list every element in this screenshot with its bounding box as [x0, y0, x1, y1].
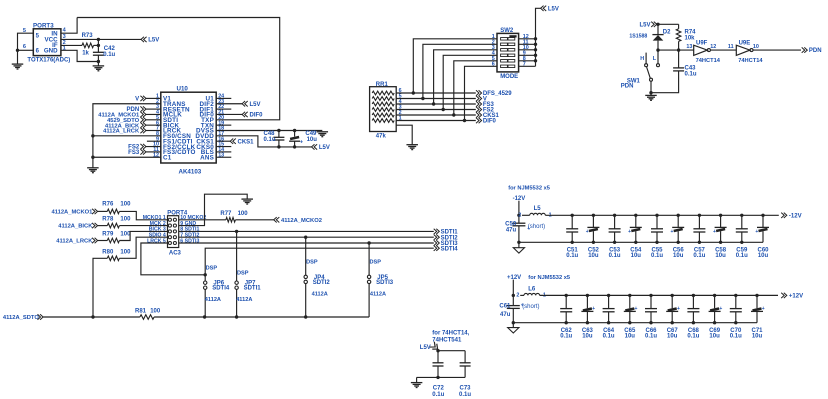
svg-text:10u: 10u — [758, 253, 769, 259]
wire U10 pin3 — [146, 108, 161, 110]
resistor R80 100 — [102, 249, 131, 260]
wire SW2 pin4 to net row — [443, 55, 497, 109]
svg-text:L5V: L5V — [548, 6, 559, 12]
svg-text:R74: R74 — [685, 30, 697, 36]
wire +12V gnd stem — [512, 323, 514, 328]
svg-text:10u: 10u — [588, 253, 599, 259]
svg-text:H: H — [640, 56, 644, 62]
node 4112A_MCKO1 at U10 pin4 — [98, 112, 146, 119]
wire U10 pin19 stub — [216, 124, 231, 126]
junction net row 3 — [432, 102, 435, 105]
svg-text:(short): (short) — [522, 304, 539, 310]
svg-text:4112A_SDTO: 4112A_SDTO — [3, 315, 39, 321]
svg-text:10u: 10u — [673, 253, 684, 259]
svg-text:U10: U10 — [177, 86, 189, 93]
wire R73 to node — [94, 44, 99, 46]
junction JP7 top — [235, 230, 238, 233]
node CKS1 at U10 — [230, 139, 254, 146]
svg-text:R77: R77 — [220, 211, 232, 217]
wire U10 pin14 stub — [216, 151, 231, 153]
RR1 pin numbers — [399, 88, 402, 122]
wire PORT4 pin5 to JP6 node — [141, 243, 205, 275]
svg-text:DSP: DSP — [370, 260, 382, 266]
wire U9F to U9E — [710, 49, 736, 51]
node DFS_4529 — [476, 90, 512, 97]
junction C48 top — [277, 129, 280, 132]
svg-text:DIF0: DIF0 — [250, 113, 264, 119]
capacitor C70 0.1u — [730, 294, 742, 340]
capacitor C48 — [264, 131, 285, 147]
node L5V at PORT3 — [141, 37, 159, 44]
svg-text:C72: C72 — [433, 386, 445, 392]
inductor L5 (short) — [518, 206, 551, 230]
PORT4 pin circles — [168, 218, 176, 244]
node 4112A_MCKO2 — [274, 217, 322, 224]
capacitor C64 0.1u — [603, 294, 615, 340]
wire +12V bottom rail — [513, 322, 757, 324]
svg-text:CKS1: CKS1 — [238, 139, 255, 145]
capacitor C67 10u — [666, 294, 680, 340]
wire PORT3 pin6 to ground rail — [18, 49, 34, 51]
diode D2 1S1588 — [629, 24, 671, 50]
junction JP5 top — [367, 241, 370, 244]
op-amp U10 box AK4103 — [161, 86, 216, 176]
wire L5V rail to R74 — [657, 23, 679, 25]
svg-text:PORT3: PORT3 — [33, 23, 54, 30]
svg-text:+: + — [671, 229, 674, 235]
node 4112A_BICK at U10 pin6 — [105, 122, 146, 129]
junction -12V bottom start — [517, 241, 520, 244]
svg-text:R76: R76 — [102, 202, 114, 208]
node DIF0 — [476, 118, 497, 125]
wire PORT3 pin5 to ground rail — [18, 33, 34, 50]
svg-text:GND: GND — [44, 48, 58, 55]
svg-text:L5V: L5V — [148, 38, 159, 44]
wire SW2 pin6 to net row — [465, 66, 498, 120]
PORT3 pin number 4 — [63, 28, 67, 34]
wire U10 pin6 — [146, 124, 161, 126]
label for 74HCT14 74HCT541 — [432, 331, 469, 344]
svg-text:0.1u: 0.1u — [687, 334, 699, 340]
wire U10 TRANS/FS0/C1 to ground — [93, 104, 161, 168]
svg-text:10: 10 — [753, 44, 759, 50]
wire SW2 pin5 to net row — [454, 61, 497, 115]
node FS3 at U10 pin11 — [128, 149, 146, 156]
wire SDTO line — [154, 316, 369, 318]
svg-text:MODE: MODE — [500, 74, 518, 80]
svg-text:0.1u: 0.1u — [685, 72, 697, 78]
svg-text:C49: C49 — [305, 131, 317, 137]
node 4112A_SDTO — [3, 314, 43, 321]
svg-text:AK4103: AK4103 — [179, 168, 202, 175]
svg-text:4112A_MCKO2: 4112A_MCKO2 — [281, 218, 322, 224]
wire -12V gnd stem — [518, 242, 520, 247]
wire net row DIF0 — [396, 120, 476, 122]
RR1 resistors — [372, 91, 394, 122]
node +12V out — [781, 293, 803, 300]
wire SW2 right pins to L5V bus — [519, 8, 541, 66]
svg-text:0.1u: 0.1u — [560, 334, 572, 340]
wire C72 to C73 top — [438, 350, 465, 352]
wire net row V — [396, 98, 476, 100]
svg-text:4112A: 4112A — [205, 297, 221, 303]
PORT3 pin number 6 — [23, 44, 26, 50]
junction -12V rail start — [517, 214, 520, 217]
node L5V at SW2 — [541, 6, 559, 13]
junction node PDN-in left — [656, 48, 659, 51]
wire U9E to PDN — [753, 49, 801, 51]
svg-text:100: 100 — [120, 216, 131, 222]
wire U10 pin9 stub — [147, 140, 161, 142]
svg-text:47u: 47u — [500, 312, 511, 318]
svg-text:2: 2 — [516, 293, 519, 299]
svg-text:74HCT14: 74HCT14 — [696, 58, 721, 64]
svg-text:ANS: ANS — [200, 154, 214, 161]
junction SDTO/JP7 — [235, 315, 238, 318]
svg-text:L5V: L5V — [250, 102, 261, 108]
svg-text:+: + — [755, 229, 758, 235]
wire U10 pin1 — [146, 97, 161, 99]
capacitor C57 0.1u — [693, 214, 705, 260]
inverter U9E 74HCT14 — [736, 40, 763, 64]
wire U10 pin10 — [146, 146, 161, 148]
switch SW2 (DIP) MODE — [497, 28, 519, 80]
capacitor C59 0.1u — [736, 214, 748, 260]
PORT3 pin number 2 — [63, 40, 66, 46]
svg-text:DFS_4529: DFS_4529 — [483, 91, 512, 97]
junction JP4 top — [304, 236, 307, 239]
svg-text:+: + — [586, 229, 589, 235]
svg-text:4112A_BICK: 4112A_BICK — [58, 224, 93, 230]
jumper JP6 SDTI4 — [204, 266, 230, 318]
junction net row 1 — [412, 91, 415, 94]
junction R73/C42 — [97, 44, 100, 47]
U9E pin 11 — [728, 44, 734, 50]
junction C72 top — [436, 349, 439, 352]
junction SDTO/JP4 — [304, 315, 307, 318]
svg-text:10u: 10u — [715, 253, 726, 259]
U9F pin 12 — [710, 44, 716, 50]
wire BICK to R78 — [98, 225, 108, 227]
inverter U9F 74HCT14 — [694, 40, 721, 64]
wire SW2 pin3 to net row — [434, 50, 497, 104]
svg-text:100: 100 — [150, 309, 161, 315]
wire -12V rail — [545, 214, 779, 216]
svg-text:DSP: DSP — [237, 271, 249, 277]
PORT4 pin labels — [143, 215, 207, 244]
U10 pin names — [163, 96, 214, 162]
svg-text:SDTI4: SDTI4 — [212, 286, 230, 292]
svg-text:+12V: +12V — [789, 294, 803, 300]
svg-text:-12V: -12V — [789, 214, 802, 220]
svg-text:R79: R79 — [102, 232, 114, 238]
svg-text:DIF0: DIF0 — [483, 119, 497, 125]
svg-text:1S1588: 1S1588 — [629, 33, 647, 39]
svg-text:74HCT14: 74HCT14 — [738, 58, 763, 64]
svg-text:+: + — [762, 306, 765, 312]
resistor R74 10k — [676, 24, 696, 50]
ground U10 left — [87, 168, 99, 173]
wire net row CKS1 — [396, 114, 476, 116]
wire gnd stem C72 — [416, 377, 418, 382]
U9E pin 10 — [753, 44, 759, 50]
U10 pin numbers — [153, 94, 224, 159]
wire node to U9F — [658, 49, 694, 51]
wire R80 left to SDTO line — [93, 258, 107, 317]
wire SW2 pin1 to net row — [413, 39, 497, 93]
svg-text:47u: 47u — [506, 227, 517, 233]
svg-text:10k: 10k — [685, 36, 696, 42]
node -12V in — [513, 196, 526, 202]
ground RR1 — [406, 145, 418, 150]
resistor R81 100 — [135, 309, 161, 320]
wire SDTO to R81 — [43, 316, 140, 318]
node 4112A_LRCK at U10 pin7 — [103, 128, 146, 135]
svg-text:10u: 10u — [667, 334, 678, 340]
capacitor C54 10u — [628, 214, 642, 260]
svg-text:0.1u: 0.1u — [736, 253, 748, 259]
node PDN at U10 pin3 — [127, 106, 146, 113]
ground C42 — [93, 66, 105, 71]
ground -12V (triangle) — [513, 248, 524, 253]
svg-text:R73: R73 — [82, 33, 94, 39]
svg-text:FS3: FS3 — [128, 150, 140, 156]
junction net row 5 — [452, 113, 455, 116]
wire PORT3 pin4 to top rail — [61, 18, 77, 34]
node L5V at DIF2 — [242, 101, 260, 108]
svg-text:+: + — [713, 229, 716, 235]
svg-text:47k: 47k — [376, 134, 387, 140]
svg-text:C73: C73 — [460, 386, 472, 392]
U9F pin 13 — [686, 44, 692, 50]
wire PORT3 pin1 to C42 bottom — [61, 50, 99, 61]
wire R78 to PORT4 pin2 — [119, 225, 167, 227]
svg-text:10u: 10u — [709, 334, 720, 340]
svg-text:RR1: RR1 — [376, 82, 389, 88]
ground DVSS — [317, 132, 329, 137]
junction C48 bottom — [277, 145, 280, 148]
wire U10 pin7 — [146, 130, 161, 132]
resistor network RR1 box — [370, 82, 397, 140]
svg-text:SW2: SW2 — [500, 28, 514, 34]
junction C72 bottom — [436, 376, 439, 379]
svg-text:10u: 10u — [307, 137, 318, 143]
wire -12V input drop — [518, 201, 520, 224]
junction U10 gnd pin12 — [91, 156, 94, 159]
wire U10 pin5 — [146, 119, 161, 121]
capacitor C63 10u — [581, 294, 595, 340]
junction node PDN-in R74 — [677, 48, 680, 51]
wire U10 pin22 stub — [216, 108, 231, 110]
resistor R76 100 — [102, 202, 131, 214]
ground SW1 — [645, 93, 657, 101]
junction C42 bottom — [97, 60, 100, 63]
svg-text:13: 13 — [686, 44, 692, 50]
wire SDTI2 row — [179, 236, 434, 238]
capacitor C55 0.1u — [651, 214, 663, 260]
capacitor C61 47u — [499, 303, 523, 323]
svg-text:L5V: L5V — [420, 345, 431, 351]
wire U10 DIF2 to L5V — [216, 103, 242, 105]
svg-text:0.1u: 0.1u — [459, 392, 471, 398]
wire net row FS3 — [396, 103, 476, 105]
svg-text:C48: C48 — [264, 131, 276, 137]
svg-text:4112A: 4112A — [236, 297, 252, 303]
ground PORT3 — [12, 64, 24, 69]
svg-text:D2: D2 — [663, 30, 671, 36]
wire SDTI4 row — [205, 248, 434, 275]
node 4112A_MCKO1 — [51, 209, 97, 216]
capacitor C52 10u — [586, 214, 600, 260]
label for NJM5532 x5 (+12V) — [528, 275, 570, 281]
node FS2 — [476, 107, 495, 114]
wire SW2 pin2 to net row — [423, 44, 497, 98]
wire gnd stem C42 — [97, 62, 99, 66]
svg-text:4112A_LRCK: 4112A_LRCK — [103, 129, 140, 135]
svg-text:(short): (short) — [528, 224, 545, 230]
svg-text:100: 100 — [120, 202, 131, 208]
node L5V at DVDD — [312, 144, 330, 151]
svg-text:10u: 10u — [752, 334, 763, 340]
ground PORT4 — [241, 199, 253, 204]
ground C72/C73 — [411, 383, 423, 388]
svg-text:PDN: PDN — [621, 83, 634, 89]
svg-text:L5V: L5V — [319, 145, 330, 151]
ground +12V (triangle) — [508, 328, 519, 333]
svg-text:0.1u: 0.1u — [264, 137, 276, 143]
svg-text:4112A: 4112A — [370, 292, 386, 298]
svg-text:0.1u: 0.1u — [603, 334, 615, 340]
wire gnd stem PORT3 — [17, 50, 19, 64]
capacitor C58 10u — [713, 214, 727, 260]
svg-text:+: + — [719, 306, 722, 312]
wire R80 to PORT4 pin4 — [119, 237, 167, 258]
wire R76 to PORT4 pin1 — [119, 211, 167, 219]
PORT3 pin number 1 — [63, 46, 66, 52]
node V — [476, 96, 487, 103]
node SDTI1 — [434, 229, 459, 236]
wire PORT3 VCC to L5V — [61, 38, 141, 40]
resistor R77 100 — [220, 211, 248, 222]
node SDTI2 — [434, 235, 459, 242]
capacitor C66 0.1u — [645, 294, 657, 340]
capacitor C43 — [651, 50, 697, 93]
junction VCC line — [97, 38, 100, 41]
capacitor C68 0.1u — [687, 294, 699, 340]
svg-text:L5: L5 — [534, 206, 542, 212]
junction SDTO/R80 — [91, 315, 94, 318]
wire +12V rail — [540, 294, 778, 296]
svg-text:SDTI3: SDTI3 — [376, 280, 394, 286]
capacitor C50 47u — [505, 222, 530, 243]
wire R79 to PORT4 pin3 — [119, 231, 167, 240]
junction +12V rail start — [512, 294, 515, 297]
svg-text:SDTI4: SDTI4 — [441, 246, 459, 252]
svg-text:0.1u: 0.1u — [432, 392, 444, 398]
svg-text:10u: 10u — [625, 334, 636, 340]
wire SDTI3 row — [179, 242, 434, 244]
junction D2 top — [656, 23, 659, 26]
svg-text:74HCT541: 74HCT541 — [432, 338, 462, 344]
svg-text:100: 100 — [120, 249, 131, 255]
inductor L6 (short) — [516, 286, 546, 310]
wire node up to VCC line — [97, 39, 99, 45]
wire net row DFS_4529 — [396, 92, 476, 94]
svg-text:+12V: +12V — [507, 275, 521, 281]
wire U10 DVDD rail — [216, 136, 311, 147]
wire U10 pin4 — [146, 113, 161, 115]
svg-text:0.1u: 0.1u — [566, 253, 578, 259]
svg-text:4112A_MCKO1: 4112A_MCKO1 — [51, 210, 93, 216]
capacitor C42 — [93, 45, 116, 61]
svg-text:0.1u: 0.1u — [651, 253, 663, 259]
svg-text:for NJM5532 x5: for NJM5532 x5 — [508, 186, 550, 192]
svg-text:100: 100 — [238, 211, 249, 217]
connector PORT4 box (AC3) — [167, 210, 188, 256]
svg-text:R81: R81 — [135, 309, 147, 315]
wire net row FS2 — [396, 109, 476, 111]
wire U10 pin24 stub — [216, 97, 231, 99]
SW2 pin numbers — [492, 34, 529, 68]
svg-text:+: + — [592, 306, 595, 312]
svg-text:AC3: AC3 — [169, 250, 182, 256]
wire -12V bottom rail — [519, 241, 763, 243]
wire U10 pin13 stub — [216, 156, 231, 158]
svg-text:U9E: U9E — [739, 40, 751, 46]
svg-text:4112A: 4112A — [312, 292, 328, 298]
svg-text:10u: 10u — [631, 253, 642, 259]
wire SDTI1 row — [179, 230, 434, 232]
svg-text:1k: 1k — [82, 51, 89, 57]
capacitor C49 (10u electrolytic) — [289, 131, 317, 147]
capacitor C62 0.1u — [560, 294, 572, 340]
capacitor C69 10u — [709, 294, 723, 340]
node 4529_SDTO at U10 pin5 — [107, 117, 146, 124]
node 4112A_LRCK — [56, 238, 97, 245]
node SDTI3 — [434, 240, 459, 247]
svg-text:PDN: PDN — [809, 48, 822, 54]
PORT3 pin number 3 — [63, 34, 66, 40]
wire U10 CKS1 net — [216, 140, 230, 142]
node L5V at C72 — [420, 342, 440, 352]
capacitor C65 10u — [624, 294, 638, 340]
svg-text:+: + — [300, 139, 303, 145]
wire PORT4 pin9 to ground — [179, 194, 248, 225]
junction SDTO/JP6 — [203, 315, 206, 318]
capacitor C73 — [459, 351, 471, 398]
node -12V out — [781, 213, 801, 220]
capacitor C60 10u — [755, 214, 769, 260]
wire RR1 common to ground — [396, 125, 412, 144]
jumper JP5 SDTI3 — [367, 243, 393, 317]
svg-text:0.1u: 0.1u — [645, 334, 657, 340]
svg-text:0.1u: 0.1u — [730, 334, 742, 340]
junction net row 6 — [463, 119, 466, 122]
node PDN out — [802, 47, 822, 54]
wire PORT3 IF to R73 — [61, 44, 82, 46]
resistor R79 100 — [102, 232, 131, 243]
junction C49 top — [293, 129, 296, 132]
node DIF0 at U10 — [242, 112, 263, 119]
wire D2 node to SW1 L contact — [657, 50, 659, 63]
svg-text:11: 11 — [728, 44, 734, 50]
svg-text:DSP: DSP — [206, 266, 218, 272]
jumper JP7 SDTI1 — [235, 231, 261, 317]
svg-text:L5V: L5V — [640, 23, 651, 29]
resistor R73 — [82, 33, 94, 57]
wire U10 pin15 stub — [216, 146, 231, 148]
svg-text:12: 12 — [710, 44, 716, 50]
